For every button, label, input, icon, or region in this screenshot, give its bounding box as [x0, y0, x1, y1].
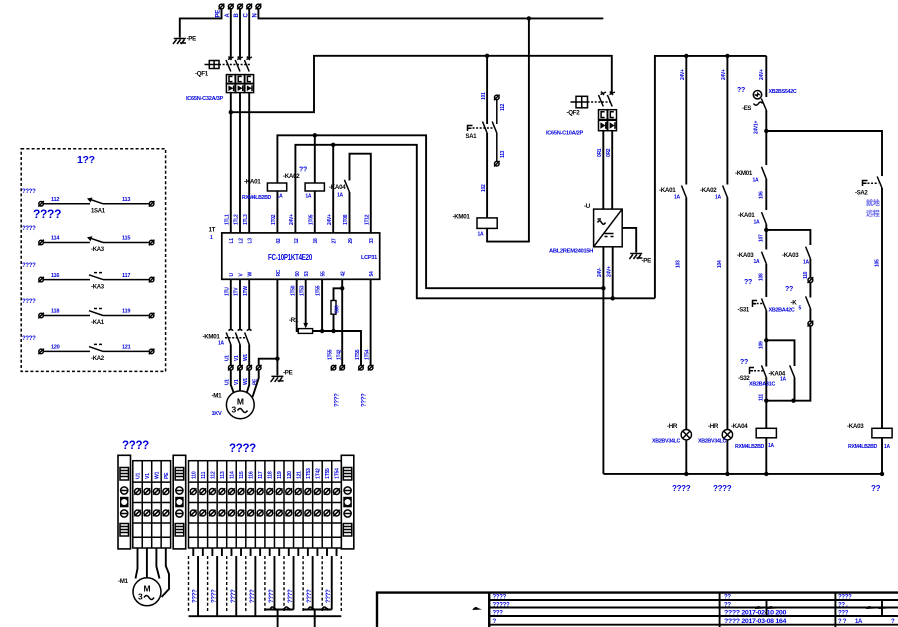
screw 120 row2: [286, 510, 292, 516]
svg-text:1A: 1A: [855, 619, 863, 625]
screw 117 row1: [257, 488, 263, 494]
svg-text:????: ????: [193, 589, 199, 603]
screw 118 row2: [266, 510, 272, 516]
labels above analog terminals: [327, 349, 370, 360]
contact -K branch: [791, 296, 811, 311]
svg-text:????: ????: [229, 443, 256, 455]
screw 110 row1: [190, 488, 196, 494]
breaker QF1 pole 2: [235, 57, 243, 72]
screw 116 row2: [247, 510, 253, 516]
svg-text:1T08: 1T08: [343, 214, 349, 225]
svg-text:-HR: -HR: [667, 423, 678, 430]
wire U VFD to KM01: [230, 279, 232, 329]
terminal W1: [246, 365, 252, 371]
screw PE row2: [163, 510, 169, 516]
svg-text:105: 105: [875, 259, 881, 267]
svg-text:121: 121: [296, 471, 302, 479]
terminal branch lower: [808, 321, 814, 327]
contact -KM01 line C: [735, 167, 766, 184]
svg-text:-PE: -PE: [642, 258, 652, 265]
svg-text:L2: L2: [238, 238, 244, 244]
svg-text:-KA1: -KA1: [91, 320, 105, 326]
svg-text:RXM4LB2BD: RXM4LB2BD: [848, 444, 878, 450]
svg-text:U1: U1: [225, 379, 231, 385]
svg-text:????: ????: [231, 589, 237, 603]
svg-text:112: 112: [51, 197, 59, 203]
svg-text:U1: U1: [225, 355, 231, 361]
svg-text:????: ????: [22, 299, 36, 305]
svg-text:M: M: [144, 584, 151, 594]
SA2 branch wire: [766, 131, 882, 474]
wire N bus top: [258, 9, 603, 19]
svg-text:XB2BV34LC: XB2BV34LC: [652, 439, 681, 445]
screw 116 row1: [247, 488, 253, 494]
signature mark 3: [866, 601, 888, 616]
svg-text:1T55: 1T55: [327, 349, 333, 360]
svg-text:W1: W1: [154, 471, 160, 479]
ground -PE below VFD: [271, 376, 284, 382]
svg-text:-KA3: -KA3: [91, 284, 105, 290]
relay coil KA04: [731, 423, 776, 450]
svg-text:V1: V1: [145, 473, 151, 479]
svg-text:55: 55: [321, 271, 327, 276]
screw 110 row2: [190, 510, 196, 516]
ES contact blade: [761, 99, 766, 111]
terminal stubs below field strip: [193, 548, 336, 556]
svg-text:V1: V1: [234, 355, 240, 361]
svg-text:1T55: 1T55: [325, 468, 331, 479]
svg-text:1A: 1A: [768, 443, 774, 449]
field terminal strip body: [189, 461, 342, 548]
screw 1T54 row2: [333, 510, 339, 516]
svg-text:50: 50: [295, 271, 301, 276]
wire KA01 top to 24V- link: [277, 135, 603, 288]
junction bus KA03: [880, 472, 884, 476]
junction link2 24V+ feed: [611, 296, 615, 300]
VFD U1 drive box: [222, 233, 380, 279]
wire labels below VFD: [224, 285, 321, 296]
svg-text:1T54: 1T54: [364, 349, 370, 360]
wire 24V+ link2: [295, 145, 655, 298]
screw 113 row2: [219, 510, 225, 516]
shield drain 2: [314, 610, 316, 627]
svg-text:???: ???: [838, 611, 849, 617]
svg-text:-QF1: -QF1: [195, 71, 209, 78]
svg-text:ABL2REM24015H: ABL2REM24015H: [549, 249, 594, 255]
junction rail lamp2: [725, 54, 729, 58]
svg-text:118: 118: [51, 309, 59, 315]
svg-text:XB2BA42C: XB2BA42C: [769, 308, 796, 314]
svg-text:1A: 1A: [305, 194, 311, 200]
svg-text:54: 54: [369, 271, 375, 276]
screw 1T55 row1: [324, 488, 330, 494]
svg-text:IC65N-C32A/3P: IC65N-C32A/3P: [186, 96, 224, 102]
QF1 trip units: [226, 75, 253, 93]
screw V1 row2: [144, 510, 150, 516]
screw U1 row2: [134, 510, 140, 516]
svg-text:1A: 1A: [337, 193, 343, 199]
svg-text:24V-: 24V-: [597, 267, 603, 277]
svg-text:24V+: 24V+: [327, 214, 333, 225]
svg-text:12: 12: [294, 238, 300, 243]
screw 118 row1: [266, 488, 272, 494]
screw 112 row1: [209, 488, 215, 494]
svg-text:????: ????: [672, 484, 691, 493]
screw U1 row1: [134, 488, 140, 494]
screw 120 row1: [286, 488, 292, 494]
svg-text:V1: V1: [234, 379, 240, 385]
junction busC: [764, 472, 768, 476]
terminal 1T42: [339, 365, 345, 371]
screw 111 row1: [200, 488, 206, 494]
screw 1T54 row1: [333, 488, 339, 494]
svg-text:109: 109: [759, 341, 765, 349]
screw 1T53 row2: [305, 510, 311, 516]
svg-text:111: 111: [201, 471, 207, 479]
terminal PE motor: [256, 365, 262, 371]
svg-text:?? .: ?? .: [838, 602, 848, 608]
svg-text:27: 27: [332, 238, 338, 243]
lamp line B wire: [726, 56, 728, 474]
svg-text:1T53: 1T53: [299, 285, 305, 296]
junction latch bottom: [791, 399, 795, 403]
svg-text:1TV: 1TV: [234, 287, 240, 296]
terminal 1T54: [368, 365, 374, 371]
svg-text:500: 500: [335, 305, 341, 313]
svg-text:02: 02: [276, 238, 282, 243]
signature mark 2: [755, 601, 777, 616]
svg-text:-SA2: -SA2: [855, 191, 868, 197]
svg-text:-KA02: -KA02: [700, 187, 717, 194]
terminal A: [228, 4, 234, 10]
row 1 switch 1SA1: [22, 189, 154, 215]
junction bottom parallel: [764, 399, 768, 403]
terminal strip end piece 3: [341, 455, 354, 549]
breaker QF1 pole 1: [226, 57, 234, 72]
svg-text:-S31: -S31: [738, 308, 750, 314]
wires to motor M1 bottom: [136, 548, 170, 597]
wire VFD ground pin: [276, 279, 278, 375]
svg-text:??: ??: [871, 484, 881, 493]
labels below motor terminals: [225, 378, 259, 385]
svg-text:1T05: 1T05: [308, 214, 314, 225]
svg-text:????: ????: [361, 393, 367, 407]
resistor R1 potentiometer body: [289, 317, 313, 333]
svg-text:-KA04: -KA04: [329, 184, 346, 191]
svg-text:-M1: -M1: [212, 393, 223, 400]
breaker QF2 pole 2: [607, 92, 615, 107]
svg-text:115: 115: [122, 236, 130, 242]
svg-text:1T02: 1T02: [271, 214, 277, 225]
svg-text:??: ??: [740, 359, 748, 366]
junction N bus / KM01 return: [527, 16, 531, 20]
terminal 1T55b: [358, 365, 364, 371]
relay coil KA03: [847, 423, 892, 450]
QF2 aux square: [571, 96, 588, 108]
screw 119 row1: [276, 488, 282, 494]
screw 121 row1: [295, 488, 301, 494]
screw 1T42 row1: [314, 488, 320, 494]
svg-text:就地: 就地: [866, 198, 880, 207]
svg-text:1A: 1A: [780, 377, 786, 383]
VFD top pin numbers: [229, 238, 375, 244]
svg-text:1A: 1A: [754, 259, 760, 265]
contact -KA03 line C: [737, 252, 766, 265]
svg-text:M: M: [237, 397, 244, 407]
lamp HR line A: [652, 423, 692, 445]
shield bar cable group 1: [265, 609, 294, 611]
cable cores pairs 1-4: [198, 556, 255, 616]
svg-text:远程: 远程: [866, 209, 880, 218]
svg-text:W1: W1: [243, 354, 249, 361]
terminal N: [256, 4, 262, 10]
junction rail lamp1: [684, 54, 688, 58]
terminal strip end piece 1: [118, 455, 131, 549]
labels above motor terminals: [225, 354, 249, 361]
junction KA04 branch: [764, 338, 768, 342]
SA1 aux pole to terminals 112/113: [492, 95, 506, 167]
junction KA02 on link1: [313, 133, 317, 137]
svg-text:-U: -U: [584, 203, 591, 210]
svg-text:????: ????: [122, 440, 149, 452]
svg-text:24V+: 24V+: [607, 266, 613, 277]
junction SA1 tap: [485, 54, 489, 58]
wire 24V+ output: [612, 247, 614, 298]
screw W1 row1: [153, 488, 159, 494]
screw 121 row2: [295, 510, 301, 516]
svg-text:-R1: -R1: [289, 317, 299, 324]
svg-text:1A: 1A: [715, 195, 721, 201]
svg-text:113: 113: [122, 197, 130, 203]
svg-text:3: 3: [232, 405, 237, 415]
wire A to QF1: [230, 9, 232, 59]
shield bar cable group 2: [303, 609, 332, 611]
svg-text:???? 2017-03-08 164: ???? 2017-03-08 164: [724, 619, 787, 625]
power supply U: [549, 203, 622, 255]
pushbutton S32: [738, 359, 776, 388]
svg-text:XB2BV34LC: XB2BV34LC: [698, 439, 727, 445]
svg-text:117: 117: [122, 273, 130, 279]
svg-text:RXM4LB2BD: RXM4LB2BD: [735, 444, 765, 450]
remote panel dashed enclosure: [21, 149, 165, 372]
svg-text:120: 120: [51, 345, 60, 351]
KA03 parallel branch: [766, 230, 810, 401]
svg-text:????: ????: [22, 189, 36, 195]
screw 119 row2: [276, 510, 282, 516]
junction SA2 branch: [764, 129, 768, 133]
shield drain 1: [277, 610, 279, 627]
wire C to QF1: [248, 9, 250, 59]
svg-text:112: 112: [500, 103, 506, 111]
screw PE row1: [163, 488, 169, 494]
svg-text:1TL2: 1TL2: [234, 214, 240, 225]
wire B to QF1: [239, 9, 241, 59]
wire SA1 to KM01 coil: [486, 133, 488, 218]
svg-text:113: 113: [220, 471, 226, 479]
svg-text:113: 113: [500, 150, 506, 158]
svg-text:????: ????: [33, 207, 61, 221]
svg-text:104: 104: [717, 260, 723, 268]
svg-text:1T12: 1T12: [364, 214, 370, 225]
svg-text:??: ??: [785, 286, 793, 293]
svg-text:????: ????: [288, 589, 294, 603]
svg-text:53: 53: [304, 271, 310, 276]
junction R2 node: [331, 329, 335, 333]
row 3 contact -KA3: [22, 263, 154, 290]
svg-text:???? 2017-02-10 200: ???? 2017-02-10 200: [724, 611, 787, 617]
terminal C: [246, 4, 252, 10]
svg-text:29: 29: [348, 238, 354, 243]
svg-text:114: 114: [51, 236, 60, 242]
svg-text:FC-10P1KT4E20: FC-10P1KT4E20: [268, 253, 313, 262]
svg-text:????: ????: [212, 589, 218, 603]
svg-text:-HR: -HR: [708, 423, 719, 430]
svg-text:1A: 1A: [803, 260, 809, 266]
svg-text:-ES: -ES: [742, 106, 751, 112]
terminal U1: [228, 365, 234, 371]
wire 24V- output: [602, 247, 604, 474]
svg-text:??: ??: [744, 279, 752, 286]
svg-text:-KA02: -KA02: [283, 173, 300, 180]
svg-text:24V1+: 24V1+: [753, 121, 759, 134]
svg-text:115: 115: [239, 471, 245, 479]
motor terminal strip body: [133, 461, 171, 548]
junction 1T42 branch: [340, 286, 344, 290]
QF1 aux square: [205, 61, 220, 69]
svg-text:1A: 1A: [884, 444, 890, 450]
pushbutton S31: [738, 299, 796, 314]
screw V1 row1: [144, 488, 150, 494]
svg-text:42: 42: [341, 271, 347, 276]
svg-text:103: 103: [676, 260, 682, 268]
resistor R2 vertical with feed: [331, 288, 342, 331]
wire labels above VFD: [224, 214, 370, 225]
svg-text:??: ??: [724, 602, 731, 608]
svg-text:????: ????: [334, 393, 340, 407]
svg-text:24V+: 24V+: [289, 214, 295, 225]
wire KA02 coil to VFD pin: [314, 135, 316, 183]
svg-text:119: 119: [277, 471, 283, 479]
svg-text:1A: 1A: [674, 195, 680, 201]
svg-text:112: 112: [210, 471, 216, 479]
svg-text:1T42: 1T42: [315, 468, 321, 479]
wire SA1 branch upper: [486, 56, 488, 124]
svg-text:-PE: -PE: [187, 36, 197, 43]
svg-text:? ?: ? ?: [838, 619, 847, 625]
svg-text:1T55: 1T55: [355, 349, 361, 360]
title block column lines: [720, 593, 836, 627]
svg-text:?????: ?????: [493, 602, 510, 608]
contact -KA01 line C: [738, 212, 766, 226]
svg-text:???: ???: [493, 611, 504, 617]
title block row lines: [489, 600, 898, 625]
wire PE to ground: [180, 9, 222, 38]
svg-text:U1: U1: [136, 473, 142, 479]
svg-text:106: 106: [759, 191, 765, 199]
svg-text:1A: 1A: [754, 220, 760, 226]
svg-text:116: 116: [51, 273, 59, 279]
svg-text:-QF2: -QF2: [567, 110, 581, 117]
junction KA03 branch: [764, 228, 768, 232]
svg-text:PE: PE: [164, 472, 170, 479]
ground -PE top left: [173, 39, 186, 45]
svg-text:24V+: 24V+: [759, 69, 765, 80]
svg-text:1A: 1A: [478, 232, 484, 238]
row 4 contact -KA1: [22, 299, 154, 326]
screw 115 row2: [238, 510, 244, 516]
svg-text:-KM01: -KM01: [203, 334, 221, 341]
row 2 contact -KA3: [22, 226, 154, 253]
contact -KA02 line B: [700, 186, 727, 201]
motor M1: [212, 391, 255, 419]
junction 1T55 node: [320, 329, 324, 333]
svg-text:????: ????: [269, 589, 275, 603]
svg-text:SA1: SA1: [466, 134, 478, 140]
shield twists group 1: [270, 607, 291, 611]
screw 112 row2: [209, 510, 215, 516]
svg-text:XB2BS542C: XB2BS542C: [769, 89, 798, 95]
svg-text:18: 18: [313, 238, 319, 243]
contactor coil KM01: [453, 214, 498, 238]
PSU PE stub and ground: [622, 228, 636, 253]
svg-text:1T53: 1T53: [306, 468, 312, 479]
svg-text:????: ????: [250, 589, 256, 603]
junction PE branch: [275, 357, 279, 361]
svg-text:-KA3: -KA3: [91, 247, 105, 253]
svg-text:110: 110: [191, 471, 197, 479]
svg-text:-KA01: -KA01: [738, 212, 755, 219]
QF2 mech link dashed: [588, 101, 611, 103]
switch SA2: [855, 177, 882, 218]
wire QF2 to PSU: [602, 131, 604, 209]
svg-text:-KA01: -KA01: [659, 187, 676, 194]
wires KM01 to terminals: [230, 345, 232, 366]
screw 115 row1: [238, 488, 244, 494]
svg-text:-K: -K: [791, 300, 798, 307]
wire KM01 coil return to N: [487, 18, 529, 241]
svg-text:117: 117: [258, 471, 264, 479]
screw 113 row1: [219, 488, 225, 494]
svg-text:??: ??: [299, 167, 307, 174]
contact -KA04 branch: [769, 365, 795, 382]
svg-text:-KM01: -KM01: [735, 170, 753, 177]
contact -KA01 line A: [659, 186, 686, 201]
24V- bottom bus: [603, 473, 882, 475]
row 5 contact -KA2: [22, 336, 154, 362]
wire pin53 wiper arrow: [303, 279, 308, 328]
junction busA: [684, 472, 688, 476]
contact KA04 feedback: [329, 154, 371, 233]
svg-text:1SA1: 1SA1: [91, 209, 106, 215]
terminal B: [237, 4, 243, 10]
svg-text:3: 3: [138, 592, 143, 602]
line C main wire: [765, 56, 767, 474]
svg-text:0R1: 0R1: [597, 148, 603, 157]
wire L3 QF1 to VFD: [248, 93, 250, 233]
screw 117 row2: [257, 510, 263, 516]
motor M1 bottom: [118, 578, 161, 606]
svg-text:1??: 1??: [77, 154, 95, 166]
cable cores pairs 5-8 (shielded): [274, 556, 331, 610]
wires terminals to motor M1: [231, 370, 259, 397]
svg-text:111: 111: [759, 394, 765, 401]
wire pin42 down: [341, 279, 343, 365]
cable boundary dashed lines: [189, 556, 342, 612]
svg-text:1T: 1T: [209, 227, 216, 234]
svg-text:1T42: 1T42: [336, 349, 342, 360]
wire V: [239, 279, 241, 329]
QF1 mechanical link dashed: [219, 64, 250, 66]
